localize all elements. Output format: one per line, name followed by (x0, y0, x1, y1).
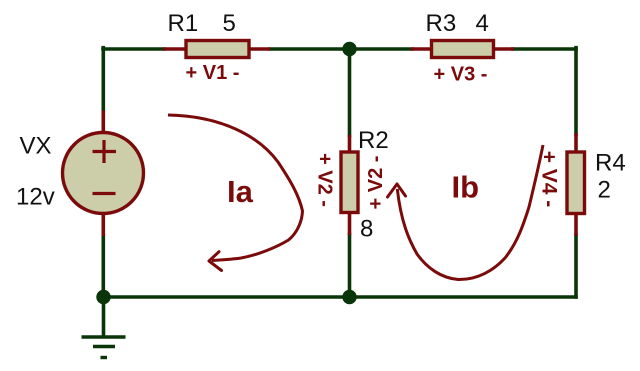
svg-text:2: 2 (598, 177, 611, 204)
wire top-right horizontal (513, 47, 576, 51)
node top junction (342, 42, 356, 56)
svg-text:VX: VX (20, 133, 52, 160)
wire left vertical lower (102, 236, 106, 298)
wire middle vertical upper (348, 49, 352, 136)
svg-text:Ia: Ia (227, 174, 254, 209)
wire left vertical upper (102, 48, 106, 111)
wire ground stem (102, 297, 106, 337)
svg-text:R4: R4 (595, 150, 626, 177)
svg-text:4: 4 (476, 10, 489, 37)
mesh arrow Ia (168, 115, 303, 271)
svg-text:+ V2 -: + V2 - (365, 156, 387, 210)
wire top middle (R1 right to junction to R3 left) (270, 47, 412, 51)
resistor R3 (411, 41, 514, 58)
svg-text:+ V1 -: + V1 - (186, 62, 240, 84)
svg-text:+ V3 -: + V3 - (434, 64, 488, 86)
voltage source VX pins (102, 111, 106, 237)
mesh arrow Ib (388, 145, 544, 280)
wire bottom horizontal (103, 295, 576, 299)
wire middle vertical lower (348, 235, 352, 298)
svg-text:R3: R3 (426, 10, 457, 37)
svg-text:R2: R2 (358, 127, 389, 154)
node bottom-middle junction (342, 290, 356, 304)
voltage source VX (63, 133, 144, 214)
svg-text:R1: R1 (168, 10, 199, 37)
ground (82, 337, 126, 358)
resistor R1 (163, 41, 270, 58)
wire top-left horizontal (103, 47, 164, 51)
wire right vertical lower (574, 235, 578, 297)
wire right vertical upper (574, 48, 578, 134)
svg-text:Ib: Ib (452, 170, 480, 205)
node bottom-left junction (96, 290, 110, 304)
svg-text:+ V2 -: + V2 - (314, 153, 336, 207)
resistor R4 (567, 133, 585, 236)
svg-text:8: 8 (360, 216, 373, 243)
svg-text:5: 5 (223, 10, 236, 37)
svg-text:12v: 12v (16, 184, 55, 211)
resistor R2 (341, 135, 358, 235)
